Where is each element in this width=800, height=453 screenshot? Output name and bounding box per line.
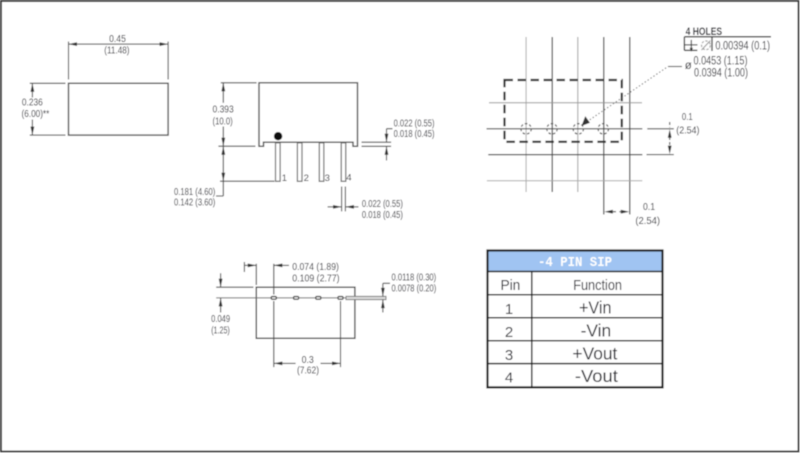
svg-text:+Vout: +Vout	[572, 344, 617, 364]
svg-text:(1.25): (1.25)	[211, 326, 230, 337]
svg-text:0.018 (0.45): 0.018 (0.45)	[362, 210, 403, 221]
svg-text:0.022 (0.55): 0.022 (0.55)	[362, 199, 403, 210]
svg-text:3: 3	[505, 347, 513, 364]
svg-text:4: 4	[505, 370, 513, 387]
svg-text:(6.00)**: (6.00)**	[22, 109, 50, 120]
svg-text:-4 PIN SIP: -4 PIN SIP	[538, 256, 612, 271]
svg-text:+Vin: +Vin	[579, 298, 612, 318]
svg-text:Function: Function	[573, 278, 622, 294]
svg-text:0.018 (0.45): 0.018 (0.45)	[394, 129, 435, 140]
svg-text:0.00394 (0.1): 0.00394 (0.1)	[715, 41, 770, 53]
svg-text:4: 4	[346, 173, 351, 184]
svg-text:1: 1	[505, 301, 513, 318]
svg-text:-Vout: -Vout	[575, 366, 618, 386]
svg-text:0.45: 0.45	[109, 34, 126, 45]
svg-text:(10.0): (10.0)	[213, 116, 233, 127]
svg-text:1: 1	[282, 173, 287, 184]
svg-text:0.0394 (1.00): 0.0394 (1.00)	[694, 67, 748, 79]
svg-text:(11.48): (11.48)	[104, 46, 129, 57]
svg-text:0.0453 (1.15): 0.0453 (1.15)	[694, 55, 748, 67]
svg-text:(7.62): (7.62)	[297, 366, 319, 377]
svg-text:0.1: 0.1	[643, 202, 655, 213]
svg-text:0.109 (2.77): 0.109 (2.77)	[292, 274, 339, 285]
svg-text:(2.54): (2.54)	[676, 126, 699, 137]
svg-text:ø: ø	[685, 60, 692, 72]
svg-text:0.3: 0.3	[302, 355, 315, 366]
svg-text:2: 2	[304, 173, 309, 184]
svg-text:3: 3	[325, 173, 330, 184]
svg-text:0.393: 0.393	[213, 105, 235, 116]
svg-text:Pin: Pin	[500, 278, 520, 294]
svg-text:(2.54): (2.54)	[635, 216, 660, 227]
svg-text:0.236: 0.236	[22, 98, 43, 109]
svg-text:0.022 (0.55): 0.022 (0.55)	[394, 119, 435, 130]
svg-text:2: 2	[505, 324, 513, 341]
svg-text:0.0118 (0.30): 0.0118 (0.30)	[392, 273, 437, 284]
svg-text:0.0078 (0.20): 0.0078 (0.20)	[392, 284, 437, 295]
svg-text:0.1: 0.1	[682, 112, 693, 123]
svg-text:-Vin: -Vin	[581, 321, 612, 341]
svg-text:0.142 (3.60): 0.142 (3.60)	[174, 197, 215, 208]
svg-text:0.049: 0.049	[211, 314, 230, 325]
svg-text:0.074 (1.89): 0.074 (1.89)	[292, 262, 339, 273]
